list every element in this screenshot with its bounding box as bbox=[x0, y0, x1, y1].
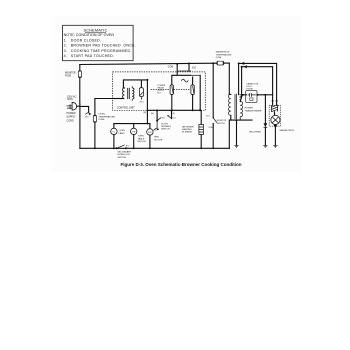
svg-text:60Hz: 60Hz bbox=[67, 98, 73, 101]
dashed mechanical link bbox=[151, 89, 191, 91]
magnetron filament coil bbox=[271, 101, 277, 115]
wire rail to transformer primary bbox=[228, 63, 230, 94]
node capacitor right bbox=[257, 94, 259, 96]
heater R1 browner heating element bbox=[199, 110, 204, 148]
svg-text:DIODE: DIODE bbox=[246, 89, 253, 91]
svg-text:N.O: N.O bbox=[126, 145, 130, 147]
svg-text:3. COOKING TIME PROGRAMMED.: 3. COOKING TIME PROGRAMMED. bbox=[64, 49, 132, 53]
connector JTV door switch stub bbox=[154, 122, 159, 131]
svg-text:Figure D-3. Oven Schematic-Bro: Figure D-3. Oven Schematic-Browner Cooki… bbox=[120, 162, 241, 167]
fuse F3 magnetron temperature fuse bbox=[217, 61, 224, 65]
node junctions sub rail bbox=[171, 109, 173, 111]
magnetron cathode arrow bbox=[274, 125, 278, 128]
wire fuse column bbox=[94, 99, 96, 149]
label 120V AC 60Hz bbox=[67, 95, 77, 101]
svg-text:SECONDARY: SECONDARY bbox=[117, 151, 131, 154]
svg-text:COM: COM bbox=[168, 67, 173, 69]
svg-text:MAGNETRON: MAGNETRON bbox=[216, 51, 230, 54]
plug P1 power plug bbox=[67, 102, 80, 110]
wire K2 bottom down bbox=[192, 95, 194, 111]
wire HV secondary to capacitor node bbox=[240, 95, 265, 102]
wire N.O side loop bbox=[199, 75, 201, 110]
svg-text:SUPPLY: SUPPLY bbox=[66, 116, 76, 119]
node magnetron filament terminals bbox=[272, 100, 274, 102]
wire filament line upper bbox=[239, 63, 277, 101]
motor TM turntable bbox=[131, 128, 137, 134]
svg-text:TABLE: TABLE bbox=[138, 137, 145, 140]
svg-text:NOTE: CONDITION OF OVEN: NOTE: CONDITION OF OVEN bbox=[64, 33, 115, 37]
relay RY coil bbox=[139, 88, 143, 104]
node N.O rail junction bbox=[188, 63, 190, 65]
svg-text:RECTIFIER: RECTIFIER bbox=[249, 132, 261, 134]
label monitor switch bbox=[206, 115, 226, 129]
label magnetron temperature fuse bbox=[216, 51, 232, 59]
label power transformer bbox=[245, 108, 262, 113]
wire sub rail under CU bbox=[147, 109, 200, 111]
svg-text:MOTOR: MOTOR bbox=[138, 141, 147, 143]
svg-text:TM: TM bbox=[132, 131, 135, 133]
wire lamp drops bbox=[114, 135, 150, 149]
wire plug right to JTV stub bbox=[80, 106, 89, 112]
svg-text:POWER: POWER bbox=[245, 108, 254, 110]
label turn table motor bbox=[138, 136, 147, 143]
svg-text:LAMP: LAMP bbox=[119, 132, 125, 135]
svg-text:POWER: POWER bbox=[66, 112, 75, 115]
wire capacitor to magnetron link bbox=[265, 94, 272, 96]
svg-text:SWITCH: SWITCH bbox=[161, 129, 170, 131]
fuse F2 oven temperature fuse bbox=[93, 115, 96, 122]
svg-text:FAN: FAN bbox=[154, 136, 159, 139]
label oven lamp bbox=[119, 130, 126, 135]
wire CU left entry bbox=[113, 98, 124, 100]
wire left riser to plug bbox=[79, 65, 81, 105]
ground G3 bbox=[273, 145, 277, 147]
door sensing switch S2 bbox=[156, 110, 172, 122]
wire N.O rail drop bbox=[188, 64, 190, 72]
wire CU terminals to lamp feed bbox=[114, 110, 150, 123]
wire bottom rail L2 bbox=[80, 147, 229, 149]
svg-text:1. DOOR CLOSED.: 1. DOOR CLOSED. bbox=[64, 38, 102, 42]
svg-text:FUSE: FUSE bbox=[99, 119, 105, 121]
node monitor top bbox=[212, 62, 214, 64]
label fan motor bbox=[154, 136, 163, 142]
svg-text:2. BROWNER PAD TOUCHED ONCE: 2. BROWNER PAD TOUCHED ONCE. bbox=[64, 44, 136, 48]
svg-text:SCHEMATIC: SCHEMATIC bbox=[84, 29, 108, 33]
spring squiggle bbox=[191, 74, 201, 76]
label oven temperature fuse bbox=[99, 114, 116, 122]
svg-text:FM: FM bbox=[148, 132, 151, 134]
svg-text:HEATING: HEATING bbox=[182, 128, 192, 131]
wire plug riser down to bottom rail bbox=[79, 104, 81, 148]
node frame ground tap bbox=[236, 119, 238, 121]
svg-text:OVEN: OVEN bbox=[99, 114, 106, 116]
wire CU right column bbox=[146, 80, 148, 111]
node bottom rail junctions bbox=[94, 147, 96, 149]
label browner heating element bbox=[182, 126, 194, 133]
svg-text:4. START PAD TOUCHED.: 4. START PAD TOUCHED. bbox=[64, 54, 115, 58]
transformer T2 low voltage bbox=[122, 86, 134, 101]
svg-text:MAGNETRON: MAGNETRON bbox=[280, 129, 295, 132]
svg-text:COM: COM bbox=[208, 127, 213, 129]
ground G2 bbox=[263, 145, 267, 147]
svg-text:ELEMENT: ELEMENT bbox=[182, 132, 193, 134]
motor FM fan bbox=[147, 129, 153, 135]
svg-text:TRANSFORMER: TRANSFORMER bbox=[245, 109, 262, 112]
svg-text:CORD: CORD bbox=[66, 119, 73, 122]
ground G1 bbox=[234, 145, 238, 147]
connector chevrons bbox=[242, 62, 247, 68]
svg-text:N.O: N.O bbox=[206, 115, 210, 117]
wire ground drop T1 bbox=[236, 120, 238, 145]
wire filament leads bbox=[239, 63, 242, 95]
svg-text:BROWNER: BROWNER bbox=[182, 126, 194, 128]
wire filament line lower bbox=[242, 67, 273, 101]
svg-text:MONITOR: MONITOR bbox=[65, 73, 76, 75]
node capacitor left bbox=[242, 94, 244, 96]
label secondary interlock switch bbox=[117, 151, 131, 159]
wire monitor column bbox=[212, 63, 214, 148]
svg-text:SWITCH: SWITCH bbox=[117, 157, 126, 159]
svg-text:(B): (B) bbox=[144, 112, 147, 114]
wire magnetron ground drop bbox=[274, 125, 276, 146]
capacitor C1 high voltage bbox=[246, 91, 257, 103]
svg-text:OVEN: OVEN bbox=[119, 130, 126, 132]
wire transformer frame and rail end bbox=[229, 120, 252, 148]
node CU top right bbox=[146, 79, 148, 81]
svg-text:N.O: N.O bbox=[192, 67, 196, 69]
scan background tint bbox=[52, 16, 302, 172]
wire contact link bar bbox=[178, 70, 191, 72]
note box frame bbox=[63, 25, 136, 60]
svg-text:FUSE: FUSE bbox=[65, 76, 72, 78]
svg-text:TURN: TURN bbox=[138, 136, 144, 138]
svg-text:MOTOR: MOTOR bbox=[154, 139, 163, 141]
fuse F1 monitor fuse bbox=[78, 71, 81, 78]
svg-text:(RY): (RY) bbox=[140, 101, 144, 103]
wire K1 bottom down bbox=[171, 95, 173, 111]
relay contact K1 bbox=[170, 85, 173, 95]
control unit U1 dashed box bbox=[113, 72, 206, 110]
label relay RY-1 bbox=[157, 85, 165, 95]
label door sensing switch bbox=[151, 113, 176, 132]
svg-text:CAPACITOR: CAPACITOR bbox=[246, 83, 258, 86]
svg-text:(F): (F) bbox=[172, 113, 175, 115]
node filament taps bbox=[238, 62, 240, 64]
relay contact K2 bbox=[191, 85, 194, 95]
svg-text:TEMPERATURE: TEMPERATURE bbox=[99, 115, 116, 118]
node lamp feed tap bbox=[147, 123, 149, 125]
magnetron anode circle bbox=[271, 115, 280, 124]
svg-text:JTV: JTV bbox=[85, 116, 89, 118]
node rectifier top bbox=[264, 94, 266, 96]
transformer T1 power transformer bbox=[229, 94, 243, 120]
wire lamp risers bbox=[114, 124, 150, 129]
svg-text:SWITCH: SWITCH bbox=[217, 123, 225, 125]
switch S1 secondary interlock bbox=[116, 145, 130, 150]
label capacitor and diode bbox=[246, 83, 258, 91]
wire top rail L1 bbox=[80, 63, 230, 64]
svg-text:N.O.: N.O. bbox=[157, 93, 162, 95]
label power supply cord bbox=[66, 112, 76, 122]
svg-text:FUSE: FUSE bbox=[216, 57, 222, 59]
connector JTV bbox=[85, 112, 91, 118]
node rail contact feed bbox=[176, 63, 178, 65]
wire into control unit bbox=[95, 98, 113, 100]
switch S3 monitor switch bbox=[213, 117, 217, 124]
lamp OL oven lamp bbox=[111, 128, 117, 134]
label monitor fuse bbox=[65, 73, 76, 78]
svg-text:TEMPERATURE: TEMPERATURE bbox=[216, 53, 232, 56]
magnetron V1 dashed box bbox=[269, 106, 280, 127]
wire CU internal top bbox=[123, 80, 147, 88]
svg-text:CONTROL UNIT: CONTROL UNIT bbox=[117, 106, 135, 109]
rectifier D1 bbox=[264, 95, 268, 146]
svg-text:(N): (N) bbox=[151, 113, 154, 115]
wire contact feed bbox=[172, 64, 193, 85]
